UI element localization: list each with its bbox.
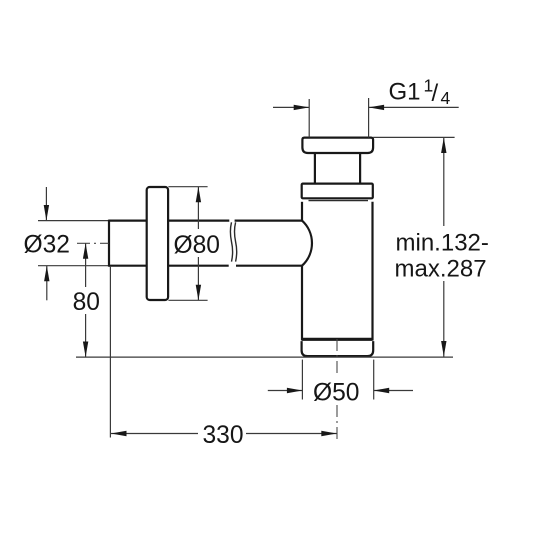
body: right edge (371, 202, 373, 341)
pipe end dome inside body (302, 221, 312, 266)
arrow up at Ø32 bottom (44, 266, 49, 282)
label Ø50 (310, 376, 365, 403)
svg-text:4: 4 (441, 88, 451, 108)
pipe: left end cap (108, 220, 110, 267)
dimension Ø50: right tail (374, 390, 413, 392)
long horizontal datum line at body bottom (76, 356, 453, 358)
flange (wall rosette) (147, 187, 168, 300)
wire: pipe bottom extension line (left of pipe end) (38, 265, 109, 267)
dimension Ø50: right extension line (373, 360, 375, 400)
svg-text:max.287: max.287 (395, 256, 487, 283)
pipe break mark (right squiggle) (235, 222, 237, 261)
pipe break mark (left squiggle) (230, 222, 232, 261)
svg-text:G1: G1 (389, 79, 421, 106)
arrow up at 80 top (83, 243, 88, 258)
svg-text:Ø32: Ø32 (24, 232, 71, 259)
arrow up at min/max top (441, 138, 446, 154)
dimension Ø32: top arrow line (45, 187, 47, 221)
arrow down at min/max bottom (441, 341, 446, 357)
arrow right at 330 (321, 431, 337, 436)
label 80 (70, 287, 101, 314)
body: left edge lower segment (301, 266, 303, 341)
arrow left-pointing at G1 right (369, 105, 385, 110)
svg-text:/: / (432, 80, 439, 107)
dimension Ø80: vertical line (197, 187, 199, 301)
top cap (wall flange nut) (302, 138, 373, 153)
svg-text:Ø80: Ø80 (174, 232, 221, 259)
arrow down at Ø32 top (44, 205, 49, 221)
arrow left at 330 (111, 431, 127, 436)
extension line G1 left (308, 99, 310, 138)
dimension min.132-max.287: vertical line (443, 138, 445, 357)
arrow left-pointing at Ø50 right (374, 388, 390, 393)
body: left edge upper segment (301, 202, 303, 221)
dimension Ø80: extension line top (168, 186, 207, 188)
dimension Ø50: left extension line (301, 360, 303, 400)
label Ø80 (172, 229, 224, 257)
pipe: horizontal inlet pipe top edge (109, 220, 302, 222)
collar (compression nut) (302, 184, 373, 199)
extension line: pipe end down to 330 dim (109, 266, 111, 438)
dimension Ø50: left tail (268, 390, 302, 392)
dimension 80: vertical line (85, 243, 87, 357)
extension line G1 right (368, 98, 370, 138)
extension line: top of cap to right (for min/max dim) (373, 136, 455, 138)
arrow right-pointing at G1 left (294, 105, 310, 110)
wire: pipe top extension line (left of pipe end) (38, 220, 109, 222)
arrow down at Ø80 bottom (196, 285, 201, 301)
seam line below collar (309, 200, 369, 202)
dimension 330: horizontal line (111, 433, 337, 435)
label 330 (198, 420, 246, 446)
neck (thread pipe) right edge (359, 153, 361, 184)
svg-text:80: 80 (73, 289, 100, 316)
neck (thread pipe) left edge (314, 153, 316, 184)
dimension Ø80: extension line bottom (168, 299, 207, 301)
dimension Ø32: bottom arrow line (46, 266, 48, 300)
dimension G1 1/4: right tail (369, 106, 459, 108)
arrow up at Ø80 top (196, 187, 201, 203)
svg-text:330: 330 (203, 422, 244, 449)
centerline: body vertical axis (dash-dot) (336, 339, 338, 441)
svg-text:Ø50: Ø50 (313, 379, 360, 406)
body bottom band (302, 338, 373, 341)
arrow right-pointing at Ø50 left (287, 388, 303, 393)
bottom cap (cup) (302, 341, 374, 356)
arrow down at 80 bottom (83, 342, 88, 358)
centerline: horizontal pipe axis (dash-dot) (77, 242, 109, 244)
dimension G1 1/4: left tail (273, 106, 309, 108)
svg-text:min.132-: min.132- (396, 230, 489, 257)
label min.132-max.287 (393, 226, 492, 281)
pipe: horizontal inlet pipe bottom edge (109, 265, 302, 267)
